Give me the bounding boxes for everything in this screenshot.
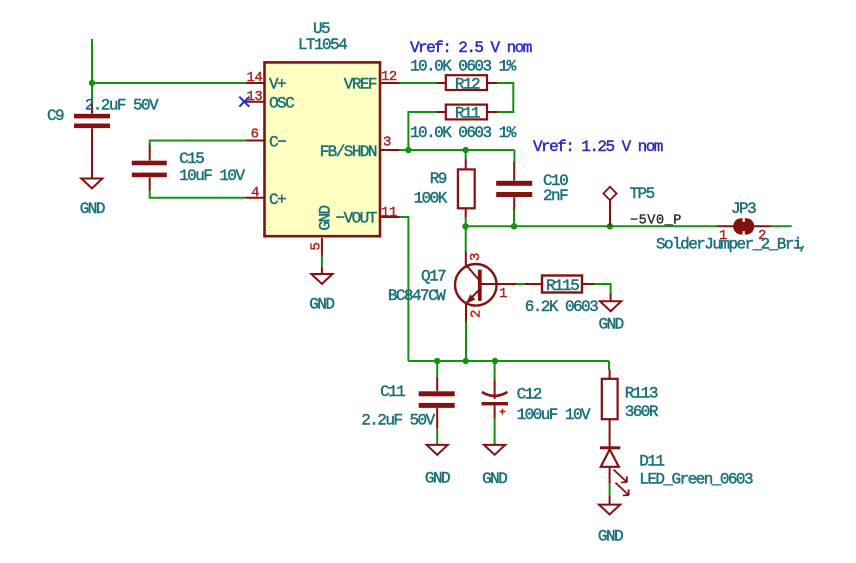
svg-text:C9: C9 <box>47 107 64 125</box>
wire: C11 bottom to GND <box>436 428 438 445</box>
R113 reference label <box>625 384 658 402</box>
svg-text:4: 4 <box>251 185 259 201</box>
junction node: C10 bottom on rail <box>511 223 517 229</box>
U5 pin 4 stub <box>246 197 264 199</box>
svg-text:SolderJumper_2_Bri: SolderJumper_2_Bri <box>656 235 802 253</box>
resistor R11 <box>437 105 498 120</box>
C15 reference label <box>179 150 204 168</box>
Q17 value label BC847CW <box>388 287 446 305</box>
svg-text:14: 14 <box>246 70 262 86</box>
svg-text:FB/SHDN: FB/SHDN <box>320 143 377 161</box>
wire: C9 junction to pin 14 of U5 <box>92 82 246 84</box>
ground symbol right of R115 <box>600 294 621 312</box>
ground symbol under U5 pin 5 <box>311 274 332 284</box>
U5 pin 5 stub <box>321 238 323 274</box>
wire: pin 6 to C15 top <box>150 141 246 147</box>
svg-text:11: 11 <box>381 205 397 221</box>
svg-text:C15: C15 <box>179 150 204 168</box>
GND label under C12 <box>482 470 507 488</box>
svg-text:2nF: 2nF <box>543 187 568 205</box>
svg-text:13: 13 <box>246 89 262 105</box>
GND label right of R115 <box>599 315 624 333</box>
ground symbol under C12 <box>484 445 505 455</box>
GND label under D11 <box>598 528 623 546</box>
svg-text:6.2K 0603: 6.2K 0603 <box>525 298 598 316</box>
resistor R115 <box>542 276 594 293</box>
D11 reference label <box>639 453 664 471</box>
op-amp U5 body (LT1054) <box>265 62 381 236</box>
C15 value label <box>179 167 245 185</box>
U5 pin name VREF <box>344 75 377 93</box>
wire: node A to C10 corner <box>408 149 514 151</box>
U5 pin number 11 <box>381 205 397 221</box>
svg-text:GND: GND <box>80 200 105 218</box>
C9 reference label <box>47 107 64 125</box>
wire: JP3 right side <box>771 225 792 227</box>
wire: pin 12 to R12 left <box>399 82 437 84</box>
wire: bottom rail <box>408 360 609 362</box>
svg-text:5: 5 <box>309 243 325 251</box>
svg-text:10.0K 0603 1%: 10.0K 0603 1% <box>410 58 517 76</box>
transistor Q17 (BC847CW) <box>455 252 542 322</box>
wire: -5V0_P rail <box>465 225 717 227</box>
U5 pin name C- <box>269 133 286 151</box>
wire: R9 bottom to -5V0_P rail <box>465 218 467 227</box>
wire: D11 cathode to GND <box>609 483 611 496</box>
junction node: R9 top <box>463 147 469 153</box>
LED D11 <box>600 446 629 495</box>
C10 value label <box>543 187 568 205</box>
resistor R9 <box>458 160 475 218</box>
svg-text:R12: R12 <box>455 76 480 94</box>
ground symbol under C9 <box>81 156 102 188</box>
wire: R12 right to R11 right <box>497 83 513 112</box>
svg-text:Vref: 2.5 V nom: Vref: 2.5 V nom <box>410 39 532 57</box>
D11 value label LED_Green_0603 <box>639 470 753 488</box>
TP5 label <box>630 185 655 203</box>
svg-text:GND: GND <box>309 295 334 313</box>
R9 value label <box>414 189 448 207</box>
svg-text:GND: GND <box>598 528 623 546</box>
junction node: C9 / V+ <box>89 80 95 86</box>
U5 pin name C+ <box>269 191 286 209</box>
capacitor C9 <box>74 100 110 156</box>
svg-text:2.2uF 50V: 2.2uF 50V <box>85 97 159 115</box>
junction node: Q17 emitter <box>463 358 469 364</box>
U5 pin 13 stub <box>246 101 264 103</box>
svg-text:V+: V+ <box>269 75 286 93</box>
U5 pin number 14 <box>246 70 262 86</box>
svg-text:−5V0_P: −5V0_P <box>630 214 682 229</box>
svg-text:C11: C11 <box>380 383 405 401</box>
svg-text:VREF: VREF <box>344 75 377 93</box>
capacitor C15 <box>132 145 167 191</box>
svg-text:GND: GND <box>317 205 335 230</box>
wire: junction down toward C9 <box>91 83 93 100</box>
svg-text:360R: 360R <box>625 403 659 421</box>
resistor R113 <box>602 370 618 447</box>
test point TP5 <box>603 187 616 227</box>
U5 pin 11 stub <box>381 216 400 218</box>
junction node: C11 top <box>434 358 440 364</box>
U5 pin name -VOUT <box>336 209 377 227</box>
C9 value label <box>85 97 159 115</box>
solder jumper JP3 <box>717 218 771 234</box>
JP3 pin number 2 <box>758 228 766 244</box>
R11 reference label <box>455 105 480 123</box>
wire: C12 bottom to GND <box>494 418 496 445</box>
svg-text:LED_Green_0603: LED_Green_0603 <box>639 470 753 488</box>
wire: R11 left down to pin 3 node <box>408 112 437 150</box>
GND label under C9 <box>80 200 105 218</box>
U5 reference label <box>313 20 330 38</box>
capacitor C12 (polarized) <box>482 380 509 418</box>
svg-text:R115: R115 <box>546 277 579 295</box>
junction node: C12 top <box>492 358 498 364</box>
svg-text:2.2uF 50V: 2.2uF 50V <box>361 412 435 430</box>
svg-text:3: 3 <box>468 253 484 261</box>
GND label under C11 <box>425 470 450 488</box>
wire: C15 bottom to pin 4 <box>150 190 246 198</box>
U5 pin 12 stub <box>381 82 400 84</box>
U5 pin 14 stub <box>246 82 264 84</box>
capacitor C10 <box>496 162 532 210</box>
wire: pin 3 stub to node A <box>399 149 408 151</box>
svg-text:10.0K 0603 1%: 10.0K 0603 1% <box>410 124 517 142</box>
GND label under U5 pin 5 <box>309 295 334 313</box>
U5 pin 6 stub <box>246 140 264 142</box>
U5 pin number 4 <box>251 185 259 201</box>
svg-text:100uF 10V: 100uF 10V <box>517 406 591 424</box>
svg-text:1: 1 <box>499 286 507 302</box>
R12 value note 10.0K 0603 1% <box>410 58 517 76</box>
JP3 value label SolderJumper <box>656 235 803 253</box>
U5 pin name GND (vertical) <box>317 205 335 230</box>
resistor R12 <box>437 75 498 90</box>
wire: U5 pin 5 to GND <box>321 256 323 267</box>
wire: R115 right to GND <box>594 284 611 294</box>
svg-text:TP5: TP5 <box>630 185 655 203</box>
svg-text:GND: GND <box>599 315 624 333</box>
wire: vertical stub above C9 junction <box>91 39 93 83</box>
no-connect X on pin 13 <box>239 97 249 107</box>
svg-text:Vref: 1.25 V nom: Vref: 1.25 V nom <box>533 138 663 156</box>
wire: bottom rail down to R113 <box>608 361 610 370</box>
svg-text:−VOUT: −VOUT <box>336 209 377 227</box>
svg-text:R9: R9 <box>430 170 447 188</box>
Q17 reference label <box>421 267 446 285</box>
svg-text:3: 3 <box>383 135 391 151</box>
U5 pin number 5 (vertical) <box>309 243 325 251</box>
R115 value note 6.2K 0603 <box>525 298 598 316</box>
Q17 pin number 1 <box>499 286 507 302</box>
Q17 pin number 2 (vertical) <box>469 310 485 318</box>
wire: Q17 base to R115 <box>516 283 525 285</box>
Q17 pin number 3 (vertical) <box>468 253 484 261</box>
svg-text:D11: D11 <box>639 453 664 471</box>
U5 pin number 13 <box>246 89 262 105</box>
svg-text:R113: R113 <box>625 384 658 402</box>
wire: corner down to C10 top <box>513 150 515 163</box>
svg-text:JP3: JP3 <box>731 200 756 218</box>
R11 value note 10.0K 0603 1% <box>410 124 517 142</box>
R12 reference label <box>455 76 480 94</box>
junction node: R9 bottom on rail <box>462 223 468 229</box>
svg-text:BC847CW: BC847CW <box>388 287 446 305</box>
wire: rail down to Q17 collector <box>465 226 467 252</box>
U5 pin name FB/SHDN <box>320 143 377 161</box>
junction node: pin 3 / R11 <box>405 147 411 153</box>
C11 reference label <box>380 383 405 401</box>
R9 reference label <box>430 170 447 188</box>
svg-text:6: 6 <box>251 127 259 143</box>
wire: Q17 emitter down to bottom rail <box>465 322 467 361</box>
U5 value label LT1054 <box>298 36 347 54</box>
svg-text:Q17: Q17 <box>421 267 446 285</box>
svg-text:12: 12 <box>381 69 397 85</box>
wire: pin 11 over and down to bottom rail <box>399 217 408 361</box>
wire: bottom rail down to C12 <box>494 361 496 381</box>
wire: bottom rail down to C11 <box>436 361 438 378</box>
note Vref 2.5 V nom <box>410 39 532 57</box>
ground symbol under D11 <box>599 496 620 515</box>
C12 reference label <box>517 386 542 404</box>
junction node: TP5 on rail <box>607 223 613 229</box>
svg-text:C12: C12 <box>517 386 542 404</box>
svg-text:C+: C+ <box>269 191 286 209</box>
wire: C9 bottom to GND <box>91 156 93 179</box>
C12 value label <box>517 406 591 424</box>
C10 reference label <box>543 172 568 190</box>
svg-text:LT1054: LT1054 <box>298 36 347 54</box>
svg-text:R11: R11 <box>455 105 480 123</box>
net label -5V0_P <box>630 214 682 229</box>
svg-text:GND: GND <box>425 470 450 488</box>
capacitor C11 <box>419 378 455 428</box>
R115 reference label <box>546 277 579 295</box>
note Vref 1.25 V nom <box>533 138 663 156</box>
svg-text:100K: 100K <box>414 189 448 207</box>
svg-text:OSC: OSC <box>269 95 294 113</box>
wire: C10 bottom to -5V0_P rail <box>513 209 515 226</box>
U5 pin name V+ <box>269 75 286 93</box>
U5 pin number 6 <box>251 127 259 143</box>
JP3 reference label <box>731 200 756 218</box>
ground symbol under C11 <box>427 445 448 455</box>
U5 pin number 12 <box>381 69 397 85</box>
U5 pin number 3 <box>383 135 391 151</box>
U5 pin name OSC <box>269 95 294 113</box>
R113 value label <box>625 403 659 421</box>
wire: R9 top <box>465 150 467 160</box>
JP3 pin number 1 <box>719 228 727 244</box>
svg-text:10uF 10V: 10uF 10V <box>179 167 245 185</box>
svg-text:C−: C− <box>269 133 286 151</box>
svg-text:GND: GND <box>482 470 507 488</box>
U5 pin 3 stub <box>381 149 400 151</box>
svg-text:2: 2 <box>469 310 485 318</box>
C11 value label <box>361 412 435 430</box>
